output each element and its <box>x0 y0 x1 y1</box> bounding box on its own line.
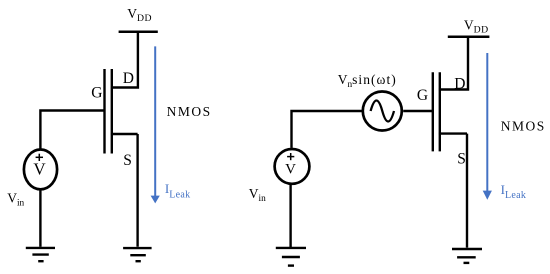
ground GND3 (right source) <box>276 248 306 266</box>
current arrow ILeak (left) <box>151 46 160 203</box>
svg-text:D: D <box>123 70 134 87</box>
svg-text:S: S <box>457 151 466 168</box>
ground GND1 (left source) <box>26 248 55 261</box>
wire source to ground (right) <box>466 134 468 248</box>
transistor M1 NMOS (left) <box>105 69 138 154</box>
wire V2 to AC source (right) <box>292 111 362 148</box>
ground GND4 (right transistor) <box>452 249 482 263</box>
wire V2 to ground (right) <box>289 184 291 247</box>
svg-text:S: S <box>123 152 132 169</box>
svg-text:Vin: Vin <box>7 191 24 209</box>
AC source Vn (right) <box>363 92 402 131</box>
wire source to ground (left) <box>136 134 138 247</box>
wire AC source to gate (right) <box>403 110 433 112</box>
current arrow ILeak (right) <box>483 53 492 200</box>
svg-text:V: V <box>285 161 296 177</box>
svg-text:Vnsin(ωt): Vnsin(ωt) <box>338 72 397 90</box>
power rail VDD (right) <box>448 36 490 39</box>
transistor M2 NMOS (right) <box>433 72 467 151</box>
power rail VDD (left) <box>119 31 158 34</box>
ground GND2 (left transistor) <box>123 248 152 261</box>
svg-text:NMOS: NMOS <box>501 119 546 134</box>
svg-text:ILeak: ILeak <box>501 182 527 201</box>
svg-text:G: G <box>417 87 428 104</box>
wire V1 to ground (left) <box>39 190 41 247</box>
svg-text:VDD: VDD <box>464 17 489 35</box>
wire VDD rail to drain (left) <box>111 32 138 88</box>
svg-text:NMOS: NMOS <box>167 104 212 119</box>
svg-text:Vin: Vin <box>249 186 266 204</box>
voltage source V2 (right) <box>275 149 310 184</box>
svg-text:D: D <box>454 75 465 92</box>
svg-text:V: V <box>33 160 46 179</box>
svg-text:G: G <box>91 85 102 102</box>
voltage source V1 (left) <box>24 150 57 190</box>
svg-text:VDD: VDD <box>127 6 152 24</box>
wire VDD rail to drain (right) <box>439 37 468 90</box>
wire gate to source V1 (left) <box>40 111 104 149</box>
svg-text:ILeak: ILeak <box>165 181 191 200</box>
